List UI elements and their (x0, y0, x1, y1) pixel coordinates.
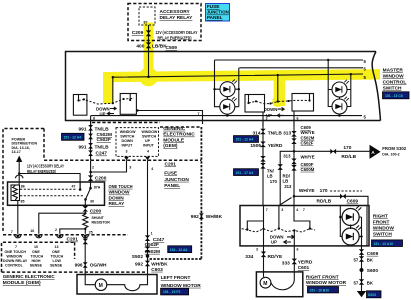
svg-text:10: 10 (34, 245, 38, 249)
svg-text:GENERIC: GENERIC (163, 126, 185, 132)
svg-text:4: 4 (296, 208, 298, 212)
svg-text:12V (ACCESSORY DELAY: 12V (ACCESSORY DELAY (27, 163, 64, 168)
12V feed arrow up (16, 156, 22, 163)
svg-text:992: 992 (191, 214, 199, 220)
feed wire 170 RD/LB from S302 (294, 150, 370, 152)
connector bowtie (83, 262, 88, 268)
svg-text:RELAY: RELAY (109, 201, 126, 207)
highlighted junction blob (141, 70, 155, 84)
svg-text:991: 991 (79, 126, 87, 132)
svg-text:MODULE: MODULE (163, 137, 185, 143)
right switch housing 4 (292, 94, 314, 112)
svg-text:57: 57 (354, 258, 359, 263)
svg-text:313: 313 (283, 154, 291, 159)
svg-text:SENSE: SENSE (50, 264, 63, 268)
svg-text:C601: C601 (298, 265, 310, 271)
svg-text:FUSE: FUSE (164, 171, 178, 177)
wire pin16 L-shape (39, 213, 86, 234)
highlighted wire horizontal band in master window switch (103, 69, 380, 82)
svg-text:6: 6 (297, 248, 299, 252)
svg-text:ONE TOUCH: ONE TOUCH (109, 184, 133, 190)
yellow drop wire (277, 75, 279, 101)
svg-text:CONTROL: CONTROL (383, 79, 407, 85)
right front window motor box (256, 272, 302, 297)
half-oval connector on coil feed (16, 175, 23, 178)
illumination diode lamp pair right (327, 59, 352, 117)
one touch window down relay box (8, 182, 105, 205)
svg-text:86: 86 (21, 185, 25, 189)
svg-text:151 - 13 A10: 151 - 13 A10 (374, 242, 394, 246)
left contacts dashed (79, 98, 135, 104)
svg-text:13-17: 13-17 (12, 150, 21, 154)
svg-text:3: 3 (126, 150, 128, 154)
connector bowtie (330, 149, 336, 154)
accessory delay relay dashed box (128, 4, 201, 41)
svg-text:2: 2 (55, 228, 57, 232)
right switch posts (249, 94, 310, 103)
illumination diode lamp pair left (213, 60, 240, 117)
wire pin2-pin3 U link (91, 160, 127, 172)
window switch input dashed box (116, 128, 159, 157)
relay blade (86, 188, 91, 199)
svg-text:RIGHT: RIGHT (373, 214, 388, 220)
svg-text:992: 992 (135, 262, 143, 268)
dashed stub (330, 190, 362, 192)
svg-text:7: 7 (266, 208, 268, 212)
svg-text:SWITCH: SWITCH (383, 85, 402, 91)
highlighted wire right drop to DOWN contact (274, 78, 285, 106)
highlighted thin wire in band (113, 74, 363, 104)
svg-text:SWITCH: SWITCH (373, 232, 392, 238)
svg-text:S600: S600 (367, 268, 379, 274)
svg-text:3: 3 (256, 248, 258, 252)
svg-text:UP: UP (145, 139, 151, 143)
right front window switch box (240, 206, 369, 246)
diagram reference badge (372, 240, 403, 247)
svg-text:7: 7 (15, 245, 17, 249)
svg-text:HIGH: HIGH (32, 259, 41, 263)
svg-text:3: 3 (266, 117, 268, 121)
highlighted contact blob right (272, 96, 283, 107)
GEM/panel dashed right edge (200, 127, 202, 259)
GEM dashed box bottom-left (2, 242, 75, 272)
svg-text:3: 3 (129, 165, 131, 169)
pin 47 post (79, 182, 81, 190)
ground wire 57 BK (361, 246, 363, 291)
switch stub wires to pins (263, 111, 294, 127)
svg-text:UP: UP (271, 240, 277, 245)
left switch housing 2 (120, 94, 136, 115)
svg-text:TN/LB: TN/LB (95, 126, 110, 132)
relay linkage dashed (20, 188, 77, 190)
svg-text:RIGHT FRONT: RIGHT FRONT (306, 275, 339, 281)
svg-text:170: 170 (343, 145, 351, 151)
connector bowtie at C509 (146, 42, 151, 48)
diagram reference badge (234, 136, 259, 143)
diagram reference badge (383, 92, 410, 99)
svg-text:SENSE: SENSE (30, 264, 43, 268)
svg-text:8: 8 (93, 117, 95, 121)
lamp risers (340, 206, 361, 246)
connector C200 bowtie (83, 206, 88, 212)
coil winding zigzag (13, 186, 18, 201)
connector bowtie on 992 wire (199, 213, 204, 219)
svg-text:LB: LB (283, 178, 289, 183)
wire from GEM pin4 down through C247 C502 to S502 (147, 160, 149, 274)
svg-text:DOWN: DOWN (122, 139, 134, 143)
svg-text:151 - 12 A4: 151 - 12 A4 (64, 135, 82, 139)
diagram reference badge (168, 246, 192, 253)
connector bowtie (88, 143, 93, 149)
svg-text:ONE: ONE (32, 250, 40, 254)
svg-text:INPUT: INPUT (122, 144, 134, 148)
wire 996 OG/WH to left motor (84, 236, 86, 275)
svg-text:CONTROL: CONTROL (5, 264, 24, 268)
svg-text:170: 170 (270, 179, 278, 184)
svg-text:RD/LB: RD/LB (341, 154, 356, 160)
connector bowtie (261, 252, 266, 258)
internal feed wire second (239, 67, 363, 69)
power distribution dashed box (3, 129, 44, 232)
svg-text:M: M (99, 283, 103, 289)
relay coil box (11, 185, 20, 201)
svg-text:YE/RD: YE/RD (268, 143, 283, 149)
svg-text:151 - 13 C6: 151 - 13 C6 (385, 94, 403, 98)
svg-text:12V (ACCESSORY DELAY: 12V (ACCESSORY DELAY (156, 30, 198, 35)
svg-text:C247: C247 (153, 237, 165, 243)
svg-text:C502F: C502F (301, 140, 314, 145)
svg-text:C502F: C502F (97, 137, 111, 143)
svg-text:WINDOW: WINDOW (109, 190, 131, 196)
diagram reference badge 2 (234, 169, 259, 176)
splice S600 (360, 268, 364, 272)
svg-text:ACCESSORY: ACCESSORY (160, 9, 191, 15)
connector C201 dashed line left (3, 234, 128, 236)
contact dots left (77, 99, 79, 101)
svg-text:TN/LB: TN/LB (95, 144, 110, 150)
svg-text:G202: G202 (368, 293, 376, 297)
svg-text:151 - 12 A4: 151 - 12 A4 (170, 248, 188, 252)
svg-text:SWITCH: SWITCH (142, 135, 157, 139)
wire 313 WH/YE from master switch (293, 121, 295, 206)
svg-text:LB: LB (267, 174, 273, 179)
svg-text:BK: BK (367, 281, 374, 286)
svg-text:UP: UP (100, 111, 106, 116)
diagram reference badge (308, 287, 339, 293)
svg-text:DOWN: DOWN (109, 195, 125, 201)
junction to 170 wire (293, 195, 296, 198)
svg-text:C603: C603 (151, 267, 163, 273)
splice S502 (146, 254, 150, 258)
motor symbol (260, 277, 271, 288)
svg-text:C209: C209 (132, 30, 144, 36)
svg-text:WH/BK: WH/BK (206, 214, 223, 220)
fuse junction panel cyan badge (206, 4, 230, 22)
accessory delay relay inner box (139, 7, 155, 25)
svg-text:3: 3 (281, 208, 283, 212)
svg-text:TOUCH: TOUCH (51, 255, 64, 259)
connector bowtie C609 (291, 131, 296, 137)
svg-text:TOUCH: TOUCH (31, 255, 44, 259)
motor symbol (95, 279, 107, 291)
svg-text:1505: 1505 (250, 143, 261, 149)
wire 170 RD/LB into right switch (294, 196, 368, 246)
connector bowtie C601 (292, 259, 297, 265)
svg-text:151 - 17 A4: 151 - 17 A4 (236, 171, 254, 175)
svg-text:RD/YE: RD/YE (268, 254, 283, 260)
svg-text:996: 996 (75, 263, 83, 269)
svg-text:87: 87 (144, 21, 148, 25)
GEM dashed boundary top (92, 123, 201, 128)
connector bowtie (278, 164, 283, 170)
svg-text:WH/YE: WH/YE (301, 130, 315, 135)
connector bowties lower (260, 156, 265, 162)
svg-text:FRONT: FRONT (373, 220, 390, 226)
motor internal wires (264, 272, 295, 290)
wire 314 TN/LB from master switch to right switch (262, 121, 264, 206)
svg-text:4: 4 (147, 150, 149, 154)
svg-text:47: 47 (72, 185, 76, 189)
highlighted wire 400 LB/BK vertical from accessory delay relay (144, 23, 154, 75)
svg-text:GENERIC ELECTRONIC: GENERIC ELECTRONIC (3, 274, 56, 280)
svg-text:7: 7 (198, 112, 200, 116)
junction to S302 feed (293, 150, 296, 153)
svg-text:C502M: C502M (145, 249, 160, 255)
svg-text:WINDOW: WINDOW (120, 130, 136, 134)
svg-text:6: 6 (297, 117, 299, 121)
svg-text:A: A (371, 150, 375, 156)
wire 991 TN/LB from master switch (90, 121, 92, 161)
connector bowtie (88, 125, 93, 131)
connector bowtie (260, 142, 265, 148)
illumination diode lamp pair (342, 206, 361, 226)
connector bowtie C502 (88, 134, 93, 140)
svg-text:25: 25 (89, 230, 93, 234)
svg-text:DIA. 100-2: DIA. 100-2 (382, 153, 399, 157)
svg-text:S502: S502 (132, 254, 144, 260)
svg-text:C201: C201 (165, 161, 177, 167)
svg-text:151 - 12 A4: 151 - 12 A4 (236, 138, 254, 142)
svg-text:PANEL: PANEL (164, 183, 180, 189)
svg-text:LOW: LOW (53, 259, 62, 263)
svg-text:WH/YE: WH/YE (301, 155, 315, 160)
ground symbol G202 (357, 291, 366, 297)
svg-text:13: 13 (55, 245, 59, 249)
diagram reference badge (62, 133, 85, 140)
svg-text:OG/WH: OG/WH (90, 263, 107, 269)
connector bowtie (260, 129, 265, 135)
svg-text:YE/RD: YE/RD (298, 260, 313, 266)
svg-text:WINDOW: WINDOW (383, 73, 405, 79)
svg-text:RD/LB: RD/LB (317, 199, 332, 205)
svg-text:WINDOW: WINDOW (373, 226, 395, 232)
svg-text:7: 7 (303, 208, 305, 212)
svg-text:151 - 10 B10: 151 - 10 B10 (310, 288, 330, 292)
connector C502 bowtie (145, 246, 150, 252)
contact dots (246, 228, 248, 230)
svg-text:DOWN: DOWN (264, 107, 278, 112)
svg-text:57: 57 (354, 281, 359, 286)
pin 87A post (90, 182, 92, 188)
connector C247 bowtie (145, 235, 150, 241)
highlighted wire left bend down to DOWN contact (103, 74, 114, 104)
svg-text:SWITCH: SWITCH (120, 135, 135, 139)
svg-text:M: M (263, 281, 267, 287)
svg-text:16: 16 (30, 229, 34, 233)
wires inside from pins (247, 206, 310, 229)
svg-text:MASTER: MASTER (383, 67, 404, 73)
svg-text:ONE TOUCH: ONE TOUCH (5, 250, 27, 254)
coil feed wire (18, 174, 20, 186)
wires to bottom pins (264, 229, 295, 246)
svg-text:FROM S302: FROM S302 (382, 146, 406, 151)
connector bowtie C603 (145, 261, 150, 267)
lamp risers (215, 60, 239, 107)
svg-text:JUNCTION: JUNCTION (207, 10, 229, 16)
svg-text:170: 170 (320, 188, 328, 194)
svg-text:DELAY RELAY: DELAY RELAY (160, 15, 194, 21)
left front window motor box (77, 275, 157, 295)
half-oval connectors at C201 (15, 235, 89, 238)
svg-text:C247: C247 (96, 151, 108, 157)
svg-text:DOWN RELAY: DOWN RELAY (3, 259, 28, 263)
wire RD/LB 313 branch (279, 151, 294, 205)
svg-text:2: 2 (92, 165, 94, 169)
svg-text:4: 4 (151, 167, 153, 171)
contact dashed line (242, 229, 315, 232)
wire stub pin 7 for 992 (202, 121, 204, 125)
svg-text:85: 85 (21, 200, 25, 204)
svg-text:30: 30 (90, 199, 94, 203)
svg-text:C600M: C600M (301, 167, 315, 172)
left switch housing 1 (73, 95, 87, 116)
svg-text:333: 333 (282, 261, 290, 267)
dashed bottom edge (2, 271, 146, 273)
svg-text:334: 334 (245, 254, 253, 260)
svg-text:7: 7 (11, 230, 13, 234)
svg-text:400: 400 (136, 43, 144, 49)
svg-text:C200: C200 (90, 209, 102, 215)
connector bowtie C609 (359, 249, 364, 255)
svg-text:TN/LB 313: TN/LB 313 (268, 131, 292, 137)
svg-text:WH/BK: WH/BK (151, 262, 168, 268)
internal feed wire top (215, 59, 364, 61)
svg-text:ONE: ONE (52, 250, 60, 254)
C200 bowtie on relay control wire (88, 175, 93, 181)
svg-text:313: 313 (284, 184, 292, 189)
wire pin2 L-shape (60, 229, 86, 234)
motor internal wires (85, 275, 147, 291)
master window control switch box (66, 52, 381, 121)
pin 30 wire (84, 199, 86, 206)
wire stub to pin 8 (90, 116, 92, 127)
svg-text:C609: C609 (367, 251, 379, 257)
svg-text:JUNCTION: JUNCTION (164, 177, 189, 183)
svg-text:C509: C509 (166, 45, 178, 51)
contact dots right (247, 102, 249, 104)
connector bowtie C609 (340, 194, 346, 199)
svg-text:PANEL: PANEL (207, 15, 223, 21)
right switch housing 3 (245, 95, 265, 113)
right contacts dashed (249, 100, 310, 104)
feed wire to relay contacts (19, 174, 80, 190)
svg-text:ELECTRONIC: ELECTRONIC (163, 132, 195, 138)
wire 400 LB/BK (148, 25, 150, 77)
svg-text:RELAY ENERGIZED): RELAY ENERGIZED) (158, 36, 192, 41)
wire down to relay 87A (90, 172, 92, 182)
wire 334 RD/YE to right motor (263, 246, 265, 272)
switch posts (79, 94, 131, 101)
svg-text:(GEM): (GEM) (163, 143, 178, 149)
svg-text:WINDOW MOTOR: WINDOW MOTOR (306, 280, 347, 286)
svg-text:MODULE (GEM): MODULE (GEM) (3, 280, 41, 286)
svg-text:151 - 19 F2: 151 - 19 F2 (163, 290, 180, 294)
dashed bottom toward S502 (148, 258, 201, 260)
GEM pin connector arrows (124, 157, 129, 161)
svg-text:C200: C200 (95, 176, 107, 182)
svg-text:FUSE: FUSE (207, 4, 221, 10)
pin 85 wire down (17, 201, 19, 234)
svg-text:1: 1 (151, 231, 153, 235)
svg-text:BK: BK (367, 258, 374, 263)
diagram reference badge (161, 288, 189, 295)
svg-text:WINDOW: WINDOW (7, 255, 23, 259)
shunt resistor zigzag (83, 212, 88, 234)
svg-text:991: 991 (79, 144, 87, 150)
jagged torn right edge (372, 52, 380, 121)
connector bowtie on wire at C209 (146, 30, 151, 36)
bus wire A (138, 111, 203, 121)
svg-text:RESISTOR: RESISTOR (92, 221, 111, 225)
bus wire B (91, 115, 362, 117)
svg-text:LEFT FRONT: LEFT FRONT (161, 275, 191, 281)
connector bowtie C247 (88, 150, 93, 156)
wire 333 YE/RD to right motor (293, 246, 295, 272)
svg-text:C609: C609 (347, 199, 359, 205)
connector C201 dashed line right (44, 159, 201, 161)
svg-text:SHUNT: SHUNT (92, 216, 105, 220)
svg-text:WINDOW: WINDOW (142, 130, 158, 134)
connector bowtie C600 (291, 159, 296, 165)
connector bowtie C502 (291, 138, 296, 144)
svg-text:87A: 87A (94, 186, 101, 190)
svg-text:WH/YE: WH/YE (299, 188, 316, 194)
off-page arrow A (370, 145, 381, 159)
svg-text:INPUT: INPUT (143, 144, 155, 148)
